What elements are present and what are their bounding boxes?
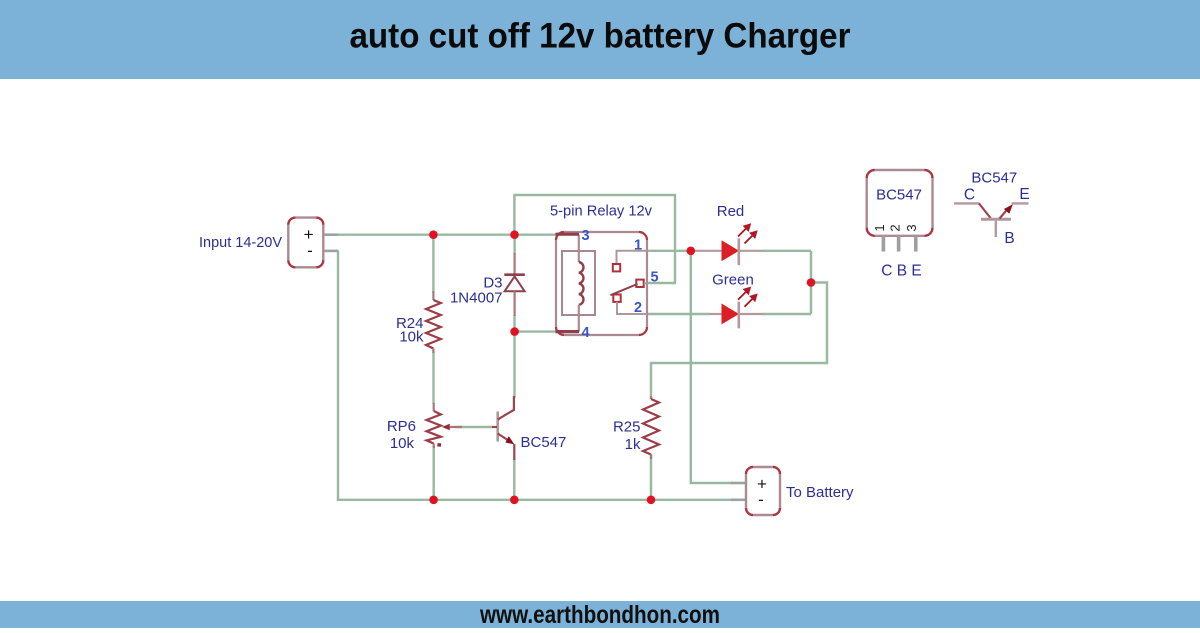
relay coil [579, 235, 584, 332]
BC547 package leg 1 [882, 236, 886, 252]
svg-text:3: 3 [904, 224, 919, 231]
svg-text:1: 1 [872, 224, 887, 231]
svg-text:-: - [307, 241, 313, 260]
label RP6 value 10k [390, 435, 415, 452]
svg-text:2: 2 [634, 300, 642, 316]
svg-text:B: B [1004, 230, 1014, 247]
junction node: red LED / battery plus [687, 247, 696, 256]
wire: input minus stub [323, 250, 339, 253]
relay pin 4 stub [556, 330, 580, 333]
wire: battery minus stub [731, 498, 747, 501]
BC547 package pin number 2 [888, 224, 903, 231]
BC547 package outline (TO-92 pinout) [867, 170, 933, 236]
wire: main + rail [337, 233, 557, 235]
svg-text:Green: Green [712, 272, 754, 289]
resistor R25 [643, 396, 659, 459]
wire: relay pin5 to riser [646, 282, 676, 284]
wire: LED rail to R25 top [651, 283, 827, 399]
label Q2 pin C [964, 187, 975, 204]
terminal: To Battery connector [746, 467, 780, 515]
label Q2 BC547 [971, 169, 1017, 186]
label D3 [483, 275, 502, 292]
label R25 [613, 419, 641, 436]
label R24 [396, 315, 424, 332]
junction node: rail at D3 [510, 230, 519, 239]
junction node: LED rail / R25 [807, 278, 816, 287]
svg-text:RP6: RP6 [387, 418, 416, 435]
relay switch arm [611, 284, 638, 295]
BC547 package pin number 1 [872, 224, 887, 231]
wire: riser from + rail to top rail [513, 194, 515, 235]
label: 5-pin Relay 12v [550, 203, 652, 220]
label: Input 14-20V [199, 234, 282, 251]
svg-text:10k: 10k [399, 329, 424, 346]
wire: relay pin2 to green LED [646, 313, 709, 315]
BC547 package label [876, 186, 922, 203]
transistor symbol Q2 BC547 (reference drawing) [954, 203, 1029, 237]
svg-text:auto cut off 12v battery Charg: auto cut off 12v battery Charger [350, 17, 851, 56]
label: Red [717, 203, 745, 220]
svg-text:-: - [758, 490, 764, 509]
svg-text:4: 4 [582, 325, 590, 341]
footer bar [0, 601, 1200, 629]
svg-text:BC547: BC547 [971, 169, 1017, 186]
svg-text:2: 2 [888, 224, 903, 231]
label Q1 BC547 [521, 434, 567, 451]
wire: RP6 bottom to ground rail [433, 446, 435, 500]
BC547 package leg 3 [914, 236, 918, 252]
wire: LED right rail [810, 251, 812, 314]
junction node: rail at R24 [429, 230, 438, 239]
wire: green LED cathode to right rail [763, 313, 811, 315]
svg-text:C B E: C B E [881, 263, 921, 280]
svg-text:5: 5 [651, 270, 659, 286]
LED D_green (Green) [709, 287, 764, 329]
svg-text:www.earthbondhon.com: www.earthbondhon.com [479, 601, 720, 628]
relay pin 4 label [582, 325, 590, 341]
svg-text:1k: 1k [625, 436, 641, 453]
label D3 value 1N4007 [450, 290, 503, 307]
relay pin 5 label [651, 270, 659, 286]
BC547 package pin number 3 [904, 224, 919, 231]
transistor Q1 BC547 [492, 396, 515, 460]
svg-text:Red: Red [717, 203, 745, 220]
relay pin 3 stub [556, 233, 580, 236]
junction node: ground at R25 [647, 496, 656, 505]
svg-text:3: 3 [582, 228, 590, 244]
svg-text:1N4007: 1N4007 [450, 290, 503, 307]
svg-text:C: C [964, 187, 975, 204]
label: To Battery [786, 484, 854, 501]
relay pin 1 label [634, 238, 642, 254]
wire: input minus down leg [337, 251, 339, 500]
relay pin 2 lead [617, 302, 647, 314]
label R25 value 1k [625, 436, 641, 453]
wire: diode junction to relay pin4 [515, 330, 557, 332]
wire: Q1 emitter to ground rail [513, 459, 515, 500]
relay pin 1 contact [613, 264, 620, 271]
wire: RP6 wiper to Q1 base [455, 426, 492, 428]
relay pin 3 label [582, 228, 590, 244]
svg-text:BC547: BC547 [521, 434, 567, 451]
wire: diode to transistor collector [513, 315, 515, 398]
BC547 package pin names C B E [881, 263, 921, 280]
relay pin 5 lead [644, 282, 648, 284]
LED D_red (Red) [691, 223, 764, 265]
terminal: Input 14-20V connector [288, 218, 323, 268]
wire: red LED cathode to right rail [763, 250, 811, 252]
relay pin 5 contact [636, 280, 643, 287]
resistor R24 [426, 291, 441, 353]
wire: relay pin1 to red LED node [646, 250, 691, 252]
label RP6 [387, 418, 416, 435]
svg-text:R25: R25 [613, 419, 641, 436]
relay pin 2 label [634, 300, 642, 316]
label Q2 pin B [1004, 230, 1014, 247]
wire: R24 bottom to RP6 top [432, 351, 434, 404]
potentiometer RP6 [427, 403, 463, 448]
wire: R25 bottom to ground rail [650, 454, 652, 500]
relay pin 1 lead [617, 251, 648, 264]
wire: rail to R24 top [432, 235, 434, 293]
diode D3 1N4007 [504, 236, 525, 316]
svg-text:BC547: BC547 [876, 186, 922, 203]
label R24 value 10k [399, 329, 424, 346]
BC547 package leg 2 [897, 236, 901, 252]
svg-text:Input 14-20V: Input 14-20V [199, 234, 282, 251]
label Q2 pin E [1019, 186, 1029, 203]
svg-text:5-pin Relay 12v: 5-pin Relay 12v [550, 203, 652, 220]
wire: battery plus stub [731, 482, 747, 485]
junction node: ground at RP6 [429, 496, 438, 505]
label: Green [712, 272, 754, 289]
wire: ground rail [337, 499, 732, 501]
junction node: ground at Q1 emitter [510, 496, 519, 505]
wire: input plus stub [323, 233, 339, 236]
relay pin 2 contact [613, 295, 620, 302]
svg-text:10k: 10k [390, 435, 415, 452]
svg-text:1: 1 [634, 238, 642, 254]
svg-text:E: E [1019, 186, 1029, 203]
wire: top rail to relay common [514, 195, 675, 283]
junction node: D3 bottom / relay pin4 [510, 327, 519, 336]
title bar [0, 0, 1200, 79]
wire: red LED node to battery plus [691, 251, 733, 483]
svg-text:To Battery: To Battery [786, 484, 854, 501]
relay K1: 5-pin relay body [556, 232, 647, 335]
